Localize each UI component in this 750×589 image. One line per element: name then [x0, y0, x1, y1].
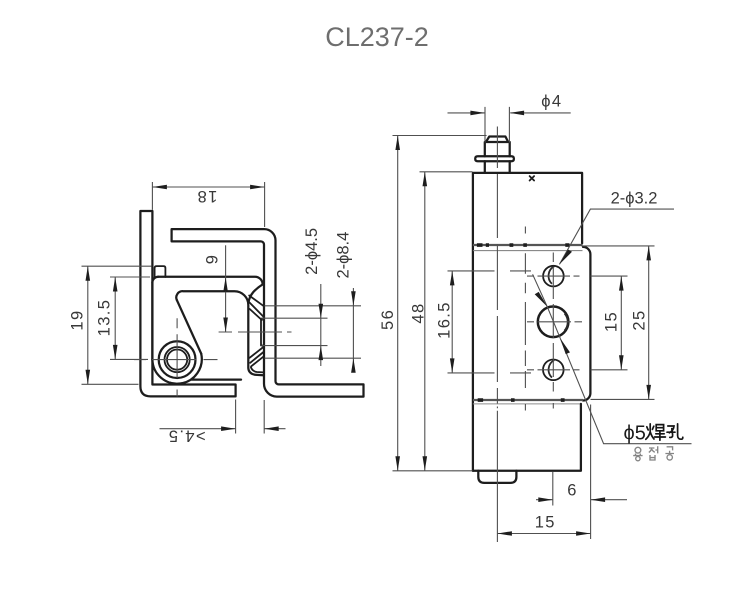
middle hole horizontal center line — [527, 321, 582, 323]
top hole horizontal center line — [527, 275, 628, 277]
bottom hole — [543, 360, 564, 381]
ear outline — [583, 247, 590, 401]
dim 19 extension lines — [82, 266, 152, 384]
dim 13.5 extension lines — [110, 277, 150, 359]
svg-text:18: 18 — [196, 187, 217, 205]
dim >4.5 left part — [160, 400, 236, 434]
bottom hole horizontal center line — [527, 369, 628, 371]
svg-text:2-ϕ8.4: 2-ϕ8.4 — [335, 232, 353, 279]
dim 18 arrows — [152, 185, 264, 190]
svg-text:15: 15 — [603, 311, 621, 332]
leader 2-phi3.2 — [559, 209, 674, 264]
circle center line horizontal — [134, 359, 218, 361]
dim 18 extension lines — [152, 182, 264, 227]
svg-text:19: 19 — [69, 309, 87, 330]
barrel center line — [496, 127, 498, 543]
dim 15 bottom — [497, 533, 590, 535]
top hole — [543, 266, 564, 287]
top seam ticks — [477, 243, 569, 247]
pin boss outer circle — [159, 341, 196, 378]
dim 13.5 line — [114, 277, 116, 359]
pin collar — [475, 156, 514, 161]
body bottom boss arc — [152, 354, 201, 384]
svg-text:48: 48 — [410, 302, 428, 323]
svg-text:2-ϕ3.2: 2-ϕ3.2 — [611, 190, 658, 208]
dim 56 — [393, 136, 487, 471]
hanzi KONG (hole) — [667, 424, 683, 439]
dim 6 — [536, 499, 627, 501]
pin boss middle circle — [165, 347, 190, 372]
pin cylinder — [485, 142, 510, 156]
svg-text:9: 9 — [203, 254, 221, 265]
svg-text:2-ϕ4.5: 2-ϕ4.5 — [303, 228, 321, 275]
dim 2-phi4.5 line — [320, 284, 322, 366]
circle center line vertical — [176, 318, 178, 396]
knuckle upper weld wedge — [249, 296, 265, 321]
top seam thick line — [473, 244, 583, 246]
svg-text:ϕ4: ϕ4 — [541, 93, 562, 111]
body hook diagonal — [177, 300, 201, 353]
knuckle pin section strip — [261, 319, 264, 346]
body center line vertical — [524, 227, 526, 389]
hangul gong — [665, 447, 674, 460]
leader phi5 weld hole — [560, 338, 691, 444]
bottom seam thin line — [473, 403, 581, 405]
dim 25 — [582, 246, 655, 400]
hangul jeop — [649, 446, 658, 460]
dim 18 line — [152, 186, 264, 188]
bottom hole inner arc — [549, 360, 555, 378]
leader to middle hole upper — [533, 274, 561, 338]
knuckle lower weld wedge — [250, 347, 264, 367]
hangul yong — [633, 447, 642, 460]
bottom foot — [478, 471, 516, 483]
svg-text:16.5: 16.5 — [436, 301, 454, 339]
svg-text:6: 6 — [567, 481, 578, 499]
body bottom edge — [192, 378, 241, 380]
bottom seam ticks — [478, 398, 565, 402]
dim >4.5 right part — [264, 400, 285, 434]
dim 48 — [420, 171, 473, 173]
dim 19 line — [87, 266, 89, 384]
dim 19 arrows — [86, 266, 91, 384]
dim 15 right — [620, 276, 622, 370]
top seam thin line — [473, 250, 583, 252]
dim 9 line — [225, 245, 227, 331]
left leaf (vertical plate + bottom flange) — [140, 211, 235, 396]
dim 13.5 arrows — [113, 277, 118, 359]
pin neck — [485, 161, 510, 173]
hanzi HAN (weld) — [646, 424, 666, 440]
dim 2-phi8.4 line — [352, 288, 354, 372]
dim 2-phi8.4 arrows — [351, 291, 356, 372]
body top tab — [155, 266, 166, 277]
bottom seam thick line — [473, 399, 583, 401]
middle hole — [538, 307, 569, 338]
body x mark — [530, 176, 535, 180]
knuckle section outer left edge — [248, 284, 262, 302]
dim 2-phi4.5 arrows — [319, 304, 324, 360]
svg-text:56: 56 — [379, 309, 397, 330]
knuckle section inner bottom curve — [251, 367, 263, 372]
dim 2-phi4.5 extension lines — [262, 306, 362, 358]
body center crosshair bottom — [510, 372, 531, 374]
body top section — [473, 173, 582, 471]
svg-text:13.5: 13.5 — [96, 299, 114, 337]
pin dome — [486, 137, 508, 143]
svg-text:CL237-2: CL237-2 — [325, 22, 429, 52]
top hole inner arc — [549, 266, 555, 284]
body center crosshair top — [510, 270, 531, 272]
middle hole inner arc — [565, 314, 568, 331]
holes vertical center line — [552, 253, 554, 392]
center line stubs below seam — [525, 403, 553, 411]
body cutout top edge — [176, 291, 263, 375]
svg-text:ϕ5: ϕ5 — [624, 422, 646, 444]
dim 9 arrows — [223, 277, 228, 332]
right leaf (top flange + vertical + bottom flange) — [172, 229, 364, 397]
body lower section — [473, 404, 581, 471]
dim 16.5 — [448, 271, 495, 373]
hinge body outline — [158, 277, 262, 285]
knuckle center line — [219, 331, 292, 333]
svg-text:25: 25 — [631, 309, 649, 330]
svg-text:15: 15 — [535, 514, 556, 532]
svg-text:>4.5: >4.5 — [167, 427, 205, 445]
pin hole circle — [167, 350, 187, 370]
